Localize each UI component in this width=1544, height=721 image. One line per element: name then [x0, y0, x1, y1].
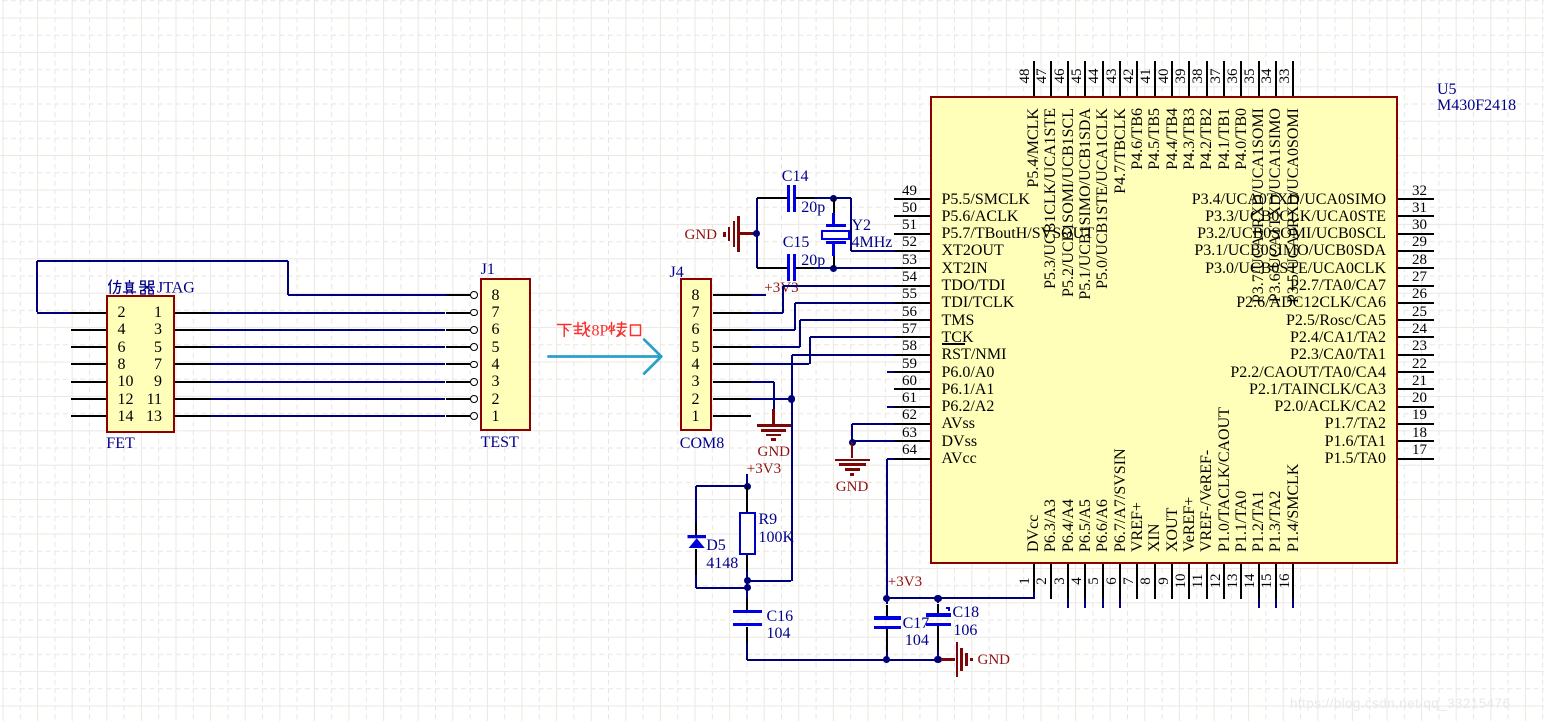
U5 pin 1 line (bottom) — [1033, 564, 1035, 599]
U5 pin 54 name TDO/TDI — [942, 277, 1006, 294]
U5 pin 6 name P6.7/A7/SVSIN — [1112, 322, 1129, 552]
J1 pin 5 circle — [470, 343, 478, 351]
ground symbol (J4 pin 3) — [772, 409, 775, 425]
FET pin 12 number — [118, 391, 134, 408]
J4 pin 2 line — [713, 398, 752, 400]
junction node C (D5/C16) — [744, 584, 751, 591]
U5 pin 58 name RST/NMI — [942, 346, 1007, 363]
capacitor C16 — [746, 588, 748, 598]
U5 pin 34 name P3.6/UCA1TXD/UCA1SIMO — [1267, 108, 1284, 338]
U5 pin 55 name TDI/TCLK — [942, 294, 1015, 311]
U5 pin 24 line (right) — [1398, 336, 1434, 338]
C15 value 20p — [801, 252, 825, 269]
J1 pin 1 number — [492, 408, 500, 425]
U5 pin 52 name XT2OUT — [942, 242, 1004, 259]
junction rail/C18 — [934, 595, 941, 602]
U5 pin 51 name P5.7/TBoutH/SVSOUT — [942, 225, 1094, 242]
svg-text:JTAG: JTAG — [157, 279, 195, 295]
U5 pin 25 line (right) — [1398, 319, 1434, 321]
U5 pin 7 name VREF+ — [1129, 322, 1146, 552]
label 下载8P接口 (download 8P interface) — [556, 321, 644, 339]
U5 pin 17 line (right) — [1398, 458, 1434, 460]
wire stub below bottom pin 15 — [1275, 599, 1277, 608]
wire crystal left bus — [756, 198, 758, 268]
C16 value 104 — [767, 625, 791, 642]
wire J4 pin 4 to TCK pin 57 — [751, 363, 809, 365]
U5 pin 41 line (top) — [1154, 61, 1156, 96]
op-amp U5 body (MSP430 chip body) — [930, 96, 1398, 564]
U5 pin 46 number — [1053, 61, 1068, 91]
U5 pin 53 line (left) — [894, 267, 930, 269]
J4 pin 4 line — [713, 363, 752, 365]
C17 designator — [903, 615, 930, 632]
U5 pin 33 name P3.5/UCA0RXD/UCA0SOMI — [1285, 108, 1302, 338]
U5 pin 33 line (top) — [1292, 61, 1294, 96]
U5 pin 4 number — [1070, 566, 1085, 596]
U5 pin 51 number — [890, 217, 930, 234]
U5 pin 32 line (right) — [1398, 198, 1434, 200]
FET pin 14 number — [118, 408, 134, 425]
wire DVss pin 63 to gnd — [852, 440, 894, 442]
J1 pin 4 line — [446, 363, 471, 365]
GND label (bottom rail) — [978, 652, 1011, 669]
U5 pin 10 line (bottom) — [1188, 564, 1190, 599]
U5 pin 24 name P2.4/CA1/TA2 — [1136, 329, 1386, 346]
U5 pin 1 name DVcc — [1025, 322, 1042, 552]
C15 designator — [783, 234, 810, 251]
U5 pin 15 name P1.3/TA2 — [1267, 322, 1284, 552]
J1 pin 7 line — [446, 312, 471, 314]
U5 pin 35 number — [1243, 61, 1258, 91]
junction crystal bottom — [830, 265, 837, 272]
junction crystal top — [830, 195, 837, 202]
capacitor C15 — [757, 267, 788, 269]
U5 pin 19 number — [1400, 407, 1440, 424]
U5 pin 41 name P4.5/TB5 — [1146, 108, 1163, 338]
FET pin 9 line (right) — [175, 381, 211, 383]
ground symbol (bottom rail, sideways) — [941, 658, 956, 661]
U5 pin 52 line (left) — [894, 250, 930, 252]
U5 pin 37 line (top) — [1223, 61, 1225, 96]
FET pin 12 line (left) — [71, 398, 107, 400]
U5 pin 13 name P1.1/TA0 — [1233, 322, 1250, 552]
U5 pin 47 number — [1035, 61, 1050, 91]
FET pin 2 line (left) — [71, 312, 107, 314]
J4 pin 6 number — [692, 321, 700, 338]
U5 pin 54 number — [890, 269, 930, 286]
J1 pin 7 number — [492, 304, 500, 321]
U5 pin 49 number — [890, 183, 930, 200]
U5 pin 31 number — [1400, 200, 1440, 217]
U5 pin 53 name XT2IN — [942, 260, 988, 277]
D5 value 4148 — [706, 555, 738, 572]
C16 designator — [767, 608, 794, 625]
U5 pin 45 line (top) — [1084, 61, 1086, 96]
junction crystal gnd — [753, 230, 760, 237]
wire FET pin 3 to J1 pin 6 — [211, 329, 446, 331]
U5 pin 21 line (right) — [1398, 388, 1434, 390]
J4 label COM8 — [680, 435, 724, 452]
RST overbar — [942, 343, 965, 345]
wire C14 to crystal top node — [814, 197, 851, 199]
J4 pin 6 line — [713, 329, 752, 331]
annotation arrow (download interface) — [547, 338, 664, 376]
J1 pin 2 line — [446, 398, 471, 400]
U5 pin 14 name P1.2/TA1 — [1250, 322, 1267, 552]
U5 pin 62 line (left) — [894, 423, 930, 425]
U5 pin 35 line (top) — [1258, 61, 1260, 96]
U5 pin 42 line (top) — [1136, 61, 1138, 96]
U5 pin 15 line (bottom) — [1275, 564, 1277, 599]
C17 value 104 — [905, 632, 929, 649]
wire C15 to crystal bottom node / XT2IN pin 53 — [814, 267, 894, 269]
U5 designator — [1437, 81, 1457, 98]
U5 pin 52 number — [890, 234, 930, 251]
U5 pin 59 name P6.0/A0 — [942, 364, 995, 381]
U5 pin 54 line (left) — [894, 285, 930, 287]
power port +3V3 (reset network) — [747, 461, 781, 478]
J4 pin 1 number — [692, 408, 700, 425]
U5 pin 29 name P3.1/UCB0SIMO/UCB0SDA — [1136, 242, 1386, 259]
U5 pin 16 number — [1278, 566, 1293, 596]
U5 pin 48 line (top) — [1033, 61, 1035, 96]
J4 pin 7 number — [692, 304, 700, 321]
U5 pin 6 number — [1105, 566, 1120, 596]
J1 pin 6 line — [446, 329, 471, 331]
U5 pin 4 name P6.5/A5 — [1077, 322, 1094, 552]
U5 pin 49 line (left) — [894, 198, 930, 200]
J1 pin 1 circle — [470, 412, 478, 420]
J1 pin 6 number — [492, 321, 500, 338]
U5 pin 60 number — [890, 373, 930, 390]
U5 pin 9 name XOUT — [1164, 322, 1181, 552]
U5 pin 40 line (top) — [1171, 61, 1173, 96]
FET pin 3 number — [132, 321, 162, 338]
U5 pin 35 name P3.7/UCA1RXD/UCA1SOMI — [1250, 108, 1267, 338]
FET pin 8 number — [118, 356, 126, 373]
J1 pin 4 number — [492, 356, 500, 373]
U5 pin 2 line (bottom) — [1050, 564, 1052, 599]
U5 pin 11 line (bottom) — [1206, 564, 1208, 599]
J1 pin 5 line — [446, 346, 471, 348]
wire J4 pin 6 to TDI/TCLK pin 55 — [751, 329, 795, 331]
U5 pin 45 name P5.1/UCB1SIMO/UCB1SDA — [1077, 108, 1094, 338]
wire D5 to node C — [695, 575, 697, 588]
U5 pin 8 name XIN — [1146, 322, 1163, 552]
connector J1 body — [480, 278, 531, 431]
U5 pin 57 name TCK — [942, 329, 974, 346]
U5 pin 2 name P6.3/A3 — [1042, 322, 1059, 552]
U5 pin 30 name P3.2/UCB0SOMI/UCB0SCL — [1136, 225, 1386, 242]
U5 pin 60 line (left) — [894, 388, 930, 390]
wire J4 pin 5 to TMS pin 56 — [751, 346, 799, 348]
U5 pin 10 name VeREF+ — [1181, 322, 1198, 552]
U5 pin 62 number — [890, 407, 930, 424]
U5 pin 3 line (bottom) — [1067, 564, 1069, 599]
U5 pin 43 number — [1105, 61, 1120, 91]
J4 pin 7 line — [713, 312, 752, 314]
wire stub below bottom pin 14 — [1258, 599, 1260, 608]
FET pin 7 line (right) — [175, 363, 211, 365]
FET pin 10 number — [118, 373, 134, 390]
J4 pin 5 line — [713, 346, 752, 348]
U5 pin 38 name P4.2/TB2 — [1198, 108, 1215, 338]
U5 pin 18 number — [1400, 425, 1440, 442]
U5 pin 26 line (right) — [1398, 302, 1434, 304]
J1 pin 6 circle — [470, 326, 478, 334]
U5 pin 56 name TMS — [942, 312, 975, 329]
U5 pin 37 name P4.1/TB1 — [1216, 108, 1233, 338]
J4 pin 5 number — [692, 339, 700, 356]
FET pin 3 line (right) — [175, 329, 211, 331]
U5 pin 23 line (right) — [1398, 354, 1434, 356]
U5 pin 19 line (right) — [1398, 423, 1434, 425]
U5 pin 57 number — [890, 321, 930, 338]
U5 pin 28 number — [1400, 252, 1440, 269]
Y2 value 4MHz — [852, 234, 893, 251]
wire crystal node to XT2OUT pin 52 — [850, 198, 852, 251]
FET pin 2 number — [118, 304, 126, 321]
U5 pin 36 name P4.0/TB0 — [1233, 108, 1250, 338]
FET pin 7 number — [132, 356, 162, 373]
U5 pin 22 number — [1400, 356, 1440, 373]
U5 pin 59 line (left) — [894, 371, 930, 373]
U5 pin 42 name P4.6/TB6 — [1129, 108, 1146, 338]
J1 pin 8 number — [492, 287, 500, 304]
U5 pin 15 number — [1260, 566, 1275, 596]
U5 pin 51 line (left) — [894, 233, 930, 235]
connector J4 body — [680, 278, 713, 432]
J1 pin 3 number — [492, 373, 500, 390]
U5 pin 63 line (left) — [894, 440, 930, 442]
junction rail/C17 — [883, 595, 890, 602]
wire FET pin 2 loop to J1 pin 8 — [37, 312, 71, 314]
power port +3V3 (J4 pin 8) — [764, 280, 798, 297]
GND label (AVss/DVss) — [836, 479, 869, 496]
junction J4 pin 2 / RST — [788, 395, 795, 402]
C18 designator — [953, 604, 980, 621]
FET pin 6 line (left) — [71, 346, 107, 348]
J1 label TEST — [481, 434, 519, 451]
U5 pin 50 line (left) — [894, 215, 930, 217]
J1 pin 2 number — [492, 391, 500, 408]
U5 pin 44 name P5.0/UCB1STE/UCA1CLK — [1094, 108, 1111, 338]
wire FET pin 13 to J1 pin 1 — [211, 415, 446, 417]
U5 pin 38 number — [1191, 61, 1206, 91]
wire stub below bottom pin 16 — [1292, 599, 1294, 608]
wire AVcc pin 64 to +3V3 rail — [887, 458, 894, 460]
U5 pin 64 number — [890, 442, 930, 459]
J4 designator — [670, 264, 684, 281]
U5 pin 23 number — [1400, 338, 1440, 355]
FET pin 8 line (left) — [71, 363, 107, 365]
U5 pin 14 number — [1243, 566, 1258, 596]
U5 pin 14 line (bottom) — [1258, 564, 1260, 599]
C14 value 20p — [801, 199, 825, 216]
wire FET pin 11 to J1 pin 2 — [211, 398, 446, 400]
U5 pin 18 name P1.6/TA1 — [1136, 433, 1386, 450]
U5 pin 64 line (left) — [894, 458, 930, 460]
U5 pin 28 name P3.0/UCB0STE/UCA0CLK — [1136, 260, 1386, 277]
C18 value 106 — [953, 622, 977, 639]
U5 pin 44 line (top) — [1102, 61, 1104, 96]
U5 pin 20 line (right) — [1398, 406, 1434, 408]
wire J4 pin 7 to TDO/TDI pin 54 — [751, 312, 783, 314]
wire FET pin 9 to J1 pin 3 — [211, 381, 446, 383]
FET pin 10 line (left) — [71, 381, 107, 383]
U5 pin 8 number — [1139, 566, 1154, 596]
J1 pin 3 circle — [470, 378, 478, 386]
U5 pin 59 number — [890, 356, 930, 373]
U5 pin 16 line (bottom) — [1292, 564, 1294, 599]
capacitor C17 — [886, 598, 888, 604]
U5 pin 33 number — [1278, 61, 1293, 91]
J4 pin 1 line — [713, 415, 752, 417]
FET pin 4 line (left) — [71, 329, 107, 331]
FET label (designator) — [106, 435, 134, 452]
GND label (crystal) — [685, 227, 718, 244]
wire J4 pin 8 to +3V3 — [751, 294, 766, 296]
J1 pin 1 line — [446, 415, 471, 417]
U5 pin 31 name P3.3/UCB0CLK/UCA0STE — [1136, 208, 1386, 225]
U5 pin 13 number — [1226, 566, 1241, 596]
U5 pin 55 line (left) — [894, 302, 930, 304]
U5 pin 30 line (right) — [1398, 233, 1434, 235]
U5 pin 29 line (right) — [1398, 250, 1434, 252]
U5 pin 36 line (top) — [1240, 61, 1242, 96]
J1 pin 2 circle — [470, 395, 478, 403]
label 仿真器JTAG (emulator JTAG) — [107, 279, 199, 295]
U5 pin 53 number — [890, 252, 930, 269]
U5 pin 48 number — [1018, 61, 1033, 91]
U5 pin 25 number — [1400, 304, 1440, 321]
U5 pin 50 name P5.6/ACLK — [942, 208, 1019, 225]
capacitor C14 — [757, 197, 788, 199]
U5 pin 56 number — [890, 304, 930, 321]
FET pin 14 line (left) — [71, 415, 107, 417]
U5 pin 27 number — [1400, 269, 1440, 286]
U5 pin 6 line (bottom) — [1119, 564, 1121, 599]
wire node A to D5 — [696, 485, 747, 487]
resistor R9 — [746, 486, 748, 512]
U5 pin 47 line (top) — [1050, 61, 1052, 96]
junction bottom rail/C17 — [883, 656, 890, 663]
U5 pin 44 number — [1087, 61, 1102, 91]
U5 pin 61 number — [890, 390, 930, 407]
U5 pin 5 line (bottom) — [1102, 564, 1104, 599]
wire FET pin 1 to J1 pin 7 — [211, 312, 446, 314]
FET pin 11 number — [132, 391, 162, 408]
U5 pin 46 name P5.2/UCB1SOMI/UCB1SCL — [1060, 108, 1077, 338]
R9 value 100K — [759, 529, 795, 546]
U5 pin 23 name P2.3/CA0/TA1 — [1136, 346, 1386, 363]
U5 pin 45 number — [1070, 61, 1085, 91]
U5 pin 31 line (right) — [1398, 215, 1434, 217]
wire node B to RST riser — [747, 580, 791, 582]
FET pin 13 number — [132, 408, 162, 425]
U5 pin 12 line (bottom) — [1223, 564, 1225, 599]
J4 pin 2 number — [692, 391, 700, 408]
U5 pin 27 line (right) — [1398, 285, 1434, 287]
J4 pin 8 line — [713, 294, 752, 296]
wire stub below bottom pin 6 — [1119, 599, 1121, 608]
U5 pin 13 line (bottom) — [1240, 564, 1242, 599]
FET pin 5 line (right) — [175, 346, 211, 348]
junction AVss/DVss — [849, 439, 856, 446]
U5 pin 5 name P6.6/A6 — [1094, 322, 1111, 552]
FET pin 4 number — [118, 321, 126, 338]
wire stub below bottom pin 3 — [1067, 599, 1069, 608]
U5 pin 24 number — [1400, 321, 1440, 338]
connector FET body (emulator JTAG) — [106, 295, 175, 433]
U5 pin 43 line (top) — [1119, 61, 1121, 96]
FET pin 1 number — [132, 304, 162, 321]
U5 pin 56 line (left) — [894, 319, 930, 321]
U5 pin 50 number — [890, 200, 930, 217]
U5 pin 49 name P5.5/SMCLK — [942, 191, 1030, 208]
U5 pin 34 line (top) — [1275, 61, 1277, 96]
U5 pin 38 line (top) — [1206, 61, 1208, 96]
J1 pin 7 circle — [470, 309, 478, 317]
U5 pin 32 name P3.4/UCA0TXD/UCA0SIMO — [1136, 191, 1386, 208]
U5 pin 20 name P2.0/ACLK/CA2 — [1136, 398, 1386, 415]
U5 pin 9 number — [1157, 566, 1172, 596]
U5 pin 3 number — [1053, 566, 1068, 596]
U5 pin 34 number — [1260, 61, 1275, 91]
wire R9 to node B — [746, 571, 748, 581]
wire J4 pin 2 to RST net — [751, 398, 791, 400]
J1 pin 8 line — [446, 294, 471, 296]
svg-text:8P: 8P — [592, 322, 609, 339]
U5 pin 3 name P6.4/A4 — [1060, 322, 1077, 552]
U5 pin 7 line (bottom) — [1136, 564, 1138, 599]
U5 pin 22 name P2.2/CAOUT/TA0/CA4 — [1136, 364, 1386, 381]
U5 pin 36 number — [1226, 61, 1241, 91]
U5 pin 63 name DVss — [942, 433, 978, 450]
diode D5 (4148) — [695, 523, 697, 536]
U5 pin 26 name P2.6/ADC12CLK/CA6 — [1136, 294, 1386, 311]
U5 pin 48 name P5.4/MCLK — [1025, 108, 1042, 338]
J1 pin 8 circle — [470, 291, 478, 299]
U5 pin 11 name VREF-/VeREF- — [1198, 322, 1215, 552]
U5 pin 1 number — [1018, 566, 1033, 596]
U5 pin 40 name P4.4/TB4 — [1164, 108, 1181, 338]
J1 pin 5 number — [492, 339, 500, 356]
wire stub pin 59 — [887, 371, 894, 373]
U5 pin 28 line (right) — [1398, 267, 1434, 269]
watermark — [1290, 695, 1510, 712]
J1 designator — [481, 261, 495, 278]
U5 pin 11 number — [1191, 566, 1206, 596]
U5 pin 5 number — [1087, 566, 1102, 596]
U5 pin 29 number — [1400, 234, 1440, 251]
C14 designator — [782, 168, 809, 185]
U5 pin 39 name P4.3/TB3 — [1181, 108, 1198, 338]
U5 pin 32 number — [1400, 183, 1440, 200]
U5 pin 9 line (bottom) — [1171, 564, 1173, 599]
junction bottom rail/C18 — [934, 656, 941, 663]
U5 pin 39 number — [1174, 61, 1189, 91]
U5 pin 18 line (right) — [1398, 440, 1434, 442]
U5 pin 17 name P1.5/TA0 — [1136, 450, 1386, 467]
C18 designator mark — [946, 607, 950, 611]
U5 pin 10 number — [1174, 566, 1189, 596]
U5 pin 20 number — [1400, 390, 1440, 407]
FET pin 6 number — [118, 339, 126, 356]
U5 pin 7 number — [1122, 566, 1137, 596]
wire RST/NMI pin 58 to reset network — [792, 354, 894, 356]
U5 pin 12 number — [1209, 566, 1224, 596]
